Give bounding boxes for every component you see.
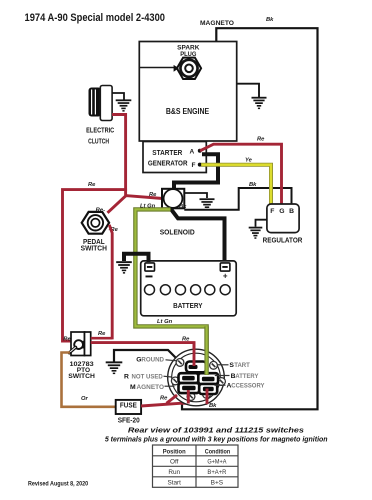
ignition switch labels left: [124, 357, 164, 391]
svg-text:SWITCH: SWITCH: [81, 245, 107, 252]
wire: red clutch feed down to PTO: [63, 115, 126, 342]
svg-text:Re: Re: [257, 136, 265, 142]
wire: orange PTO to fuse: [62, 353, 116, 407]
battery: [141, 261, 237, 316]
svg-text:Re-: Re-: [96, 208, 105, 214]
svg-text:Start: Start: [167, 479, 181, 486]
svg-text:Rear view of 103991 and 111215: Rear view of 103991 and 111215 switches: [128, 425, 305, 434]
ground: ignition switch: [106, 361, 123, 374]
wire: black SG A to solenoid top: [174, 154, 218, 189]
wire: green tip into switch: [204, 326, 208, 375]
wire: magneto black loop (engine top to ignition switch M): [182, 28, 318, 409]
svg-text:Bk: Bk: [249, 182, 257, 188]
svg-text:REGULATOR: REGULATOR: [263, 235, 303, 244]
wire: red junction to solenoid: [125, 196, 163, 199]
solenoid: [162, 189, 184, 209]
wire: red SG A to regulator G: [200, 144, 282, 204]
svg-text:Bk: Bk: [209, 403, 217, 409]
svg-text:G: G: [279, 208, 284, 215]
svg-text:B+A+R: B+A+R: [207, 469, 226, 476]
wire: red PTO out to ignition switch: [91, 337, 113, 340]
ignition switch rear view: [168, 349, 226, 406]
svg-text:Lt Gn: Lt Gn: [140, 204, 156, 210]
svg-text:NOT USED: NOT USED: [132, 373, 163, 380]
svg-text:Condition: Condition: [205, 448, 231, 455]
svg-text:F: F: [192, 162, 196, 169]
svg-text:SFE-20: SFE-20: [118, 418, 140, 425]
svg-text:Lt Gn: Lt Gn: [157, 319, 173, 325]
PTO switch: [71, 332, 85, 356]
svg-text:Re: Re: [182, 337, 190, 343]
wire: thick black solenoid bottom to battery +: [171, 209, 225, 263]
svg-text:GENERATOR: GENERATOR: [148, 160, 188, 167]
ground: regulator: [249, 227, 263, 239]
svg-text:SOLENOID: SOLENOID: [160, 227, 196, 236]
svg-text:5 terminals plus a ground with: 5 terminals plus a ground with 3 key pos…: [105, 434, 328, 443]
ground: solenoid: [200, 198, 215, 210]
svg-text:TART: TART: [234, 362, 250, 369]
wire: battery minus strap to ground: [124, 254, 149, 262]
wire: yellow SG F to regulator F: [201, 165, 271, 204]
wire: regulator ground lead: [256, 220, 267, 227]
svg-text:Ye: Ye: [245, 157, 253, 163]
wire: red magneto-side drop: [187, 390, 190, 404]
ground: battery minus: [116, 261, 132, 273]
svg-text:Position: Position: [163, 448, 186, 455]
battery cells: [145, 285, 231, 295]
svg-text:ELECTRIC: ELECTRIC: [86, 126, 114, 135]
svg-text:Revised August 8, 2020: Revised August 8, 2020: [28, 480, 88, 487]
svg-text:CCESSORY: CCESSORY: [231, 383, 265, 390]
svg-text:STARTER: STARTER: [152, 150, 182, 157]
svg-text:ATTERY: ATTERY: [235, 373, 258, 380]
wire: red into switch top (over cluster): [193, 342, 196, 366]
svg-text:AGNETO: AGNETO: [137, 384, 165, 391]
svg-text:B&S ENGINE: B&S ENGINE: [166, 107, 209, 116]
engine box B&S: [139, 42, 236, 142]
svg-text:BATTERY: BATTERY: [173, 301, 202, 310]
svg-text:MAGNETO: MAGNETO: [200, 20, 234, 27]
battery plus post: [220, 263, 230, 271]
screws: [171, 359, 225, 401]
wire: red accessory drop: [206, 389, 209, 405]
svg-text:Run: Run: [168, 469, 180, 476]
svg-text:Re: Re: [149, 192, 157, 198]
starter generator box: [143, 142, 206, 173]
wire: red pedal bottom down: [109, 225, 112, 340]
svg-text:A: A: [190, 148, 195, 155]
battery minus post: [145, 263, 155, 271]
svg-text:M: M: [130, 384, 136, 391]
svg-text:Re: Re: [88, 182, 96, 188]
ground: engine right: [237, 84, 267, 109]
svg-text:Or: Or: [81, 396, 89, 402]
pedal switch: [82, 212, 109, 234]
wire: green solenoid to ignition switch B: [135, 209, 206, 375]
wire: thin black solenoid to regulator B: [184, 188, 291, 210]
spark plug: [174, 58, 202, 79]
svg-text:G+M+A: G+M+A: [207, 459, 227, 466]
wire: clutch ground lead: [112, 93, 124, 100]
ground: clutch: [116, 99, 132, 111]
svg-text:Off: Off: [170, 459, 179, 466]
svg-text:Bk: Bk: [266, 17, 274, 23]
electric clutch pulley: [89, 86, 113, 121]
svg-text:SWITCH: SWITCH: [68, 373, 95, 380]
wire: black ignition ground: [114, 350, 180, 362]
terminal cluster: [179, 362, 219, 395]
wire: red short diagonal lower-left: [167, 395, 178, 403]
regulator: [267, 204, 299, 233]
svg-text:B: B: [289, 208, 294, 215]
svg-text:ROUND: ROUND: [141, 357, 164, 364]
wire: spark plug lead: [139, 67, 177, 69]
ignition switch labels right: [227, 362, 265, 390]
wire: red fuse to ignition switch A: [141, 403, 207, 406]
fuse SFE-20: [116, 400, 141, 414]
wire: solenoid ground lead: [184, 193, 207, 198]
svg-text:R: R: [124, 373, 129, 380]
svg-text:F: F: [270, 208, 274, 215]
wire: red junction to pedal switch top: [108, 189, 126, 213]
key position table: [153, 445, 239, 487]
svg-text:Re: Re: [160, 395, 168, 401]
svg-text:FUSE: FUSE: [120, 401, 137, 410]
svg-text:+: +: [223, 272, 228, 281]
svg-text:B+S: B+S: [211, 479, 224, 486]
svg-text:CLUTCH: CLUTCH: [88, 137, 109, 146]
svg-text:Re: Re: [98, 331, 106, 337]
svg-text:1974 A-90 Special model 2-4300: 1974 A-90 Special model 2-4300: [25, 12, 166, 24]
